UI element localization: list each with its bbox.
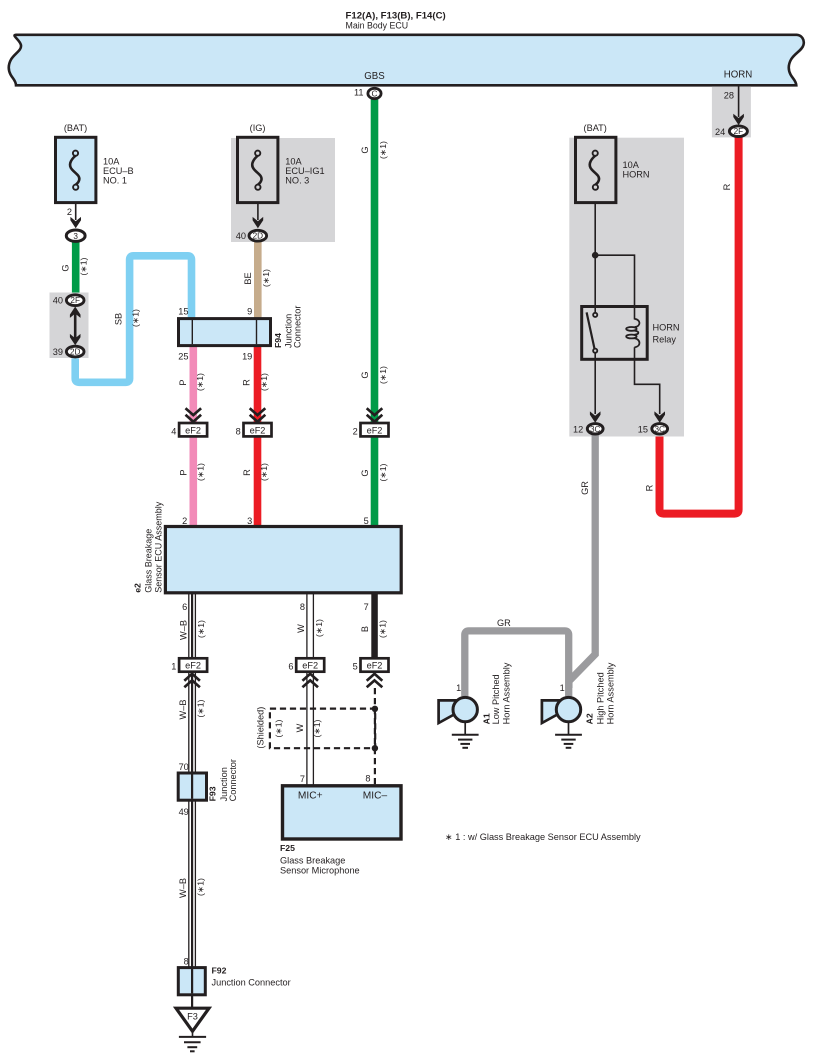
connector eF2 (pin 4) [179, 423, 207, 436]
svg-text:11: 11 [354, 88, 364, 98]
shield dashed box [270, 709, 375, 749]
svg-text:Sensor ECU Assembly: Sensor ECU Assembly [154, 501, 164, 593]
F94 Junction Connector label [273, 306, 303, 348]
svg-text:1: 1 [456, 683, 461, 693]
e2 label [133, 501, 164, 593]
svg-text:(∗1): (∗1) [196, 620, 206, 638]
svg-text:(BAT): (BAT) [584, 123, 607, 133]
wire B from ECU pin 7 to eF2 pin 5 [371, 593, 378, 659]
svg-text:(∗1): (∗1) [195, 699, 205, 717]
svg-text:(∗1): (∗1) [79, 257, 89, 275]
chevron arrows into eF2 row1 [186, 408, 383, 422]
wire fuse to oval 2D [257, 203, 259, 220]
connector eF2 (pin 6) [296, 658, 324, 671]
junction connector F94 [179, 319, 271, 346]
svg-text:B: B [360, 626, 370, 632]
svg-text:5: 5 [364, 516, 369, 526]
svg-text:(∗1): (∗1) [312, 719, 322, 737]
connector eF2 (pin 1) [179, 658, 207, 671]
svg-text:F94: F94 [273, 333, 283, 348]
svg-text:GBS: GBS [364, 71, 385, 82]
svg-text:R: R [242, 379, 252, 386]
svg-text:ECU–B: ECU–B [103, 166, 134, 176]
svg-text:Glass Breakage: Glass Breakage [280, 855, 345, 865]
svg-text:10A: 10A [285, 156, 302, 166]
wire label W-B (*1) upper [178, 620, 205, 640]
svg-text:70: 70 [179, 762, 189, 772]
svg-text:40: 40 [236, 231, 246, 241]
svg-text:(∗1): (∗1) [377, 620, 387, 638]
svg-text:(∗1): (∗1) [259, 373, 269, 391]
svg-text:BE: BE [243, 272, 253, 284]
wire relay switch to 3C pin 12 [594, 353, 596, 414]
connector oval 2D (40) [249, 230, 267, 241]
svg-text:2: 2 [182, 516, 187, 526]
connector eF2 (pin 8) [244, 423, 272, 436]
svg-text:NO. 3: NO. 3 [285, 175, 309, 185]
ground triangle F3 [176, 1008, 209, 1031]
svg-text:(∗1): (∗1) [195, 463, 205, 481]
svg-text:28: 28 [724, 91, 734, 101]
svg-text:ECU–IG1: ECU–IG1 [285, 166, 324, 176]
svg-text:W: W [296, 624, 306, 633]
wire W-B from ECU pin 6 down to F92 (outlined white wire with black stripe) [189, 593, 196, 1008]
svg-text:SB: SB [113, 313, 123, 325]
Glass Breakage Sensor ECU Assembly box e2 [165, 527, 401, 593]
svg-text:HORN: HORN [623, 170, 650, 180]
double arrow between 2F and 2D [74, 313, 77, 339]
wire fuse to relay [594, 203, 596, 312]
svg-text:G: G [360, 371, 370, 378]
relay coil [626, 319, 639, 347]
svg-text:2D: 2D [70, 348, 81, 357]
svg-text:HORN: HORN [653, 323, 680, 333]
arrowhead into oval 3 [70, 217, 81, 228]
connector oval 2F (40) [66, 295, 84, 306]
svg-text:R: R [722, 183, 732, 190]
svg-text:(∗1): (∗1) [261, 269, 271, 287]
wire W from ECU pin 8 down to F25 MIC+ [307, 593, 314, 786]
wire relay coil to 3C pin 15 [635, 347, 660, 414]
wire label P (*1) lower [178, 463, 205, 481]
connector oval 3 [66, 230, 85, 241]
wire GR from 3C pin 12 to horns [569, 434, 595, 688]
svg-text:(∗1): (∗1) [378, 463, 388, 481]
svg-text:2D: 2D [253, 232, 264, 241]
svg-text:GR: GR [497, 618, 511, 628]
svg-text:(∗1): (∗1) [378, 141, 388, 159]
A1 Low Pitched Horn Assembly label [482, 662, 512, 724]
svg-text:(Shielded): (Shielded) [255, 707, 265, 749]
svg-text:G: G [360, 469, 370, 476]
svg-text:P: P [178, 469, 188, 475]
svg-text:3C: 3C [654, 425, 665, 434]
svg-text:e2: e2 [133, 583, 143, 593]
wire label B (*1) [360, 620, 387, 638]
svg-text:C: C [372, 90, 378, 99]
wire label W-B (*1) mid [178, 699, 205, 719]
svg-text:NO. 1: NO. 1 [103, 175, 127, 185]
wire label P (*1) upper [178, 373, 205, 391]
arrowhead into 2F [733, 114, 744, 125]
svg-text:Relay: Relay [653, 335, 677, 345]
Main Body ECU bus bar (torn-edge band) [9, 35, 804, 86]
shield junction dot lower [372, 745, 378, 751]
wire label W (*1) lower [295, 719, 322, 737]
svg-text:2F: 2F [70, 296, 80, 305]
junction dot [592, 252, 599, 259]
svg-text:A1: A1 [482, 713, 492, 724]
connector oval 3C (15) [652, 424, 668, 434]
svg-text:W–B: W–B [178, 620, 188, 640]
svg-text:eF2: eF2 [185, 425, 201, 435]
svg-text:3: 3 [73, 232, 78, 241]
horn A2 symbol [542, 697, 581, 723]
svg-text:2: 2 [353, 426, 358, 436]
wire SB from 2D to junction connector F94 pin 15 [75, 256, 191, 382]
svg-text:9: 9 [247, 307, 252, 317]
fuse 10A ECU-IG1 NO.3 box [238, 137, 278, 202]
svg-text:eF2: eF2 [367, 425, 383, 435]
earth ground symbol under F3 [179, 1031, 206, 1051]
svg-text:Horn Assembly: Horn Assembly [502, 662, 512, 724]
wire label W (*1) upper [296, 619, 324, 637]
fuse 10A ECU-B NO.1 box [56, 137, 96, 202]
junction connector F92 [178, 968, 205, 995]
svg-text:F93: F93 [208, 786, 218, 801]
wire label SB (*1) [113, 309, 140, 327]
svg-text:49: 49 [179, 807, 189, 817]
F93 Junction Connector label [208, 759, 238, 801]
svg-text:MIC+: MIC+ [298, 791, 323, 802]
connector eF2 (pin 5) [361, 658, 389, 671]
svg-text:G: G [360, 146, 370, 153]
wire label G (*1) left branch [60, 257, 88, 275]
svg-text:(∗1): (∗1) [273, 719, 283, 737]
svg-text:7: 7 [364, 602, 369, 612]
svg-text:MIC–: MIC– [363, 791, 388, 802]
wire P from F94 pin 25 to ECU pin 2 [190, 345, 198, 528]
wire label BE (*1) [243, 269, 271, 287]
svg-text:15: 15 [638, 424, 648, 434]
svg-text:(IG): (IG) [250, 123, 266, 133]
connector oval 2D (39) [66, 346, 84, 357]
svg-text:Horn Assembly: Horn Assembly [606, 662, 616, 724]
gray box around HORN fuse and relay [569, 138, 684, 437]
shield drain dashed wire to MIC- [374, 688, 376, 786]
gray strip at HORN pin 28 [712, 87, 751, 138]
svg-text:(∗1): (∗1) [314, 619, 324, 637]
svg-text:∗ 1 : w/ Glass Breakage Sensor: ∗ 1 : w/ Glass Breakage Sensor ECU Assem… [445, 832, 641, 842]
svg-text:8: 8 [365, 774, 370, 784]
wire label G (*1) mid [360, 366, 388, 384]
svg-text:7: 7 [300, 774, 305, 784]
gray box around 2F/2D pass-through [50, 293, 89, 359]
svg-text:Sensor Microphone: Sensor Microphone [280, 865, 360, 875]
connector eF2 (pin 2) [361, 423, 389, 436]
svg-text:6: 6 [182, 602, 187, 612]
wire label G (*1) lower [360, 463, 388, 481]
svg-text:Connector: Connector [228, 759, 238, 801]
svg-text:39: 39 [53, 347, 63, 357]
connector oval 3C (12) [587, 424, 603, 434]
svg-text:A2: A2 [584, 713, 594, 724]
Glass Breakage Sensor Microphone box F25 [283, 786, 402, 839]
svg-text:(∗1): (∗1) [195, 373, 205, 391]
svg-text:2F: 2F [734, 127, 744, 136]
svg-text:(∗1): (∗1) [378, 366, 388, 384]
svg-text:25: 25 [178, 352, 188, 362]
svg-text:W–B: W–B [178, 878, 188, 898]
horn A1 symbol [439, 697, 478, 723]
svg-text:G: G [60, 264, 70, 271]
ground under A2 [555, 722, 582, 748]
wire G (GBS) from pin C down to ECU pin 5 [371, 99, 379, 528]
wire label R (*1) upper [242, 373, 269, 391]
svg-text:GR: GR [580, 481, 590, 495]
svg-text:19: 19 [242, 352, 252, 362]
svg-text:15: 15 [178, 307, 188, 317]
ground under A1 [452, 722, 479, 748]
svg-text:F92: F92 [212, 966, 227, 976]
relay switch [587, 312, 595, 348]
wire G from oval 3 to connector 2F(40) [72, 241, 80, 294]
svg-text:6: 6 [288, 662, 293, 672]
svg-text:Low Pitched: Low Pitched [491, 674, 501, 724]
junction connector F93 [178, 773, 206, 800]
svg-text:10A: 10A [623, 160, 640, 170]
svg-text:10A: 10A [103, 156, 120, 166]
connector oval C [368, 88, 381, 98]
svg-text:Junction Connector: Junction Connector [212, 978, 291, 988]
svg-text:eF2: eF2 [185, 661, 201, 671]
wire R from connector 2F down, left, up to horn relay 3C pin 15 [660, 135, 739, 514]
svg-text:F25: F25 [280, 843, 295, 853]
svg-text:3: 3 [247, 516, 252, 526]
svg-text:(BAT): (BAT) [64, 123, 87, 133]
svg-text:P: P [178, 379, 188, 385]
svg-text:F3: F3 [187, 1011, 198, 1021]
A2 High Pitched Horn Assembly label [584, 662, 615, 724]
svg-text:5: 5 [353, 662, 358, 672]
wire from bus pin 28 to connector 2F [738, 87, 740, 118]
shield junction dot upper [372, 706, 378, 712]
svg-text:3C: 3C [590, 425, 601, 434]
svg-text:8: 8 [184, 956, 189, 966]
wire fuse to oval 3 [75, 203, 77, 220]
svg-text:R: R [644, 484, 654, 491]
svg-text:eF2: eF2 [302, 661, 318, 671]
svg-text:W–B: W–B [178, 700, 188, 720]
wire BE from 2D down to F94 pin 9 [254, 241, 262, 320]
wire label R (*1) lower [242, 463, 269, 481]
HORN relay box [582, 307, 648, 360]
wire label W-B (*1) lower [178, 878, 205, 898]
chevron arrows out of eF2 row2 [184, 674, 382, 688]
svg-text:(∗1): (∗1) [131, 309, 141, 327]
arrowhead into oval 2D [253, 217, 264, 228]
svg-text:12: 12 [573, 424, 583, 434]
svg-text:HORN: HORN [724, 70, 753, 81]
svg-text:4: 4 [171, 426, 176, 436]
svg-text:40: 40 [53, 296, 63, 306]
wire label G (*1) on GBS wire upper [360, 141, 388, 159]
svg-text:R: R [242, 469, 252, 476]
branch wire to relay coil [595, 255, 634, 319]
svg-text:2: 2 [67, 207, 72, 217]
svg-text:W: W [295, 723, 305, 732]
svg-text:Connector: Connector [293, 306, 303, 348]
svg-text:Main Body ECU: Main Body ECU [346, 21, 409, 31]
svg-text:1: 1 [560, 683, 565, 693]
fuse ECU-IG1 gray box [231, 138, 335, 242]
svg-text:High Pitched: High Pitched [595, 672, 605, 724]
svg-text:8: 8 [236, 426, 241, 436]
connector oval 2F (24) [729, 126, 747, 137]
svg-text:24: 24 [715, 127, 725, 137]
fuse 10A HORN box [576, 137, 616, 202]
svg-text:eF2: eF2 [367, 661, 383, 671]
svg-text:8: 8 [300, 602, 305, 612]
svg-text:eF2: eF2 [250, 425, 266, 435]
wire R from F94 pin 19 to ECU pin 3 [254, 345, 262, 528]
svg-text:Glass Breakage: Glass Breakage [144, 529, 154, 593]
svg-text:(∗1): (∗1) [195, 878, 205, 896]
svg-text:(∗1): (∗1) [259, 463, 269, 481]
svg-text:1: 1 [171, 662, 176, 672]
